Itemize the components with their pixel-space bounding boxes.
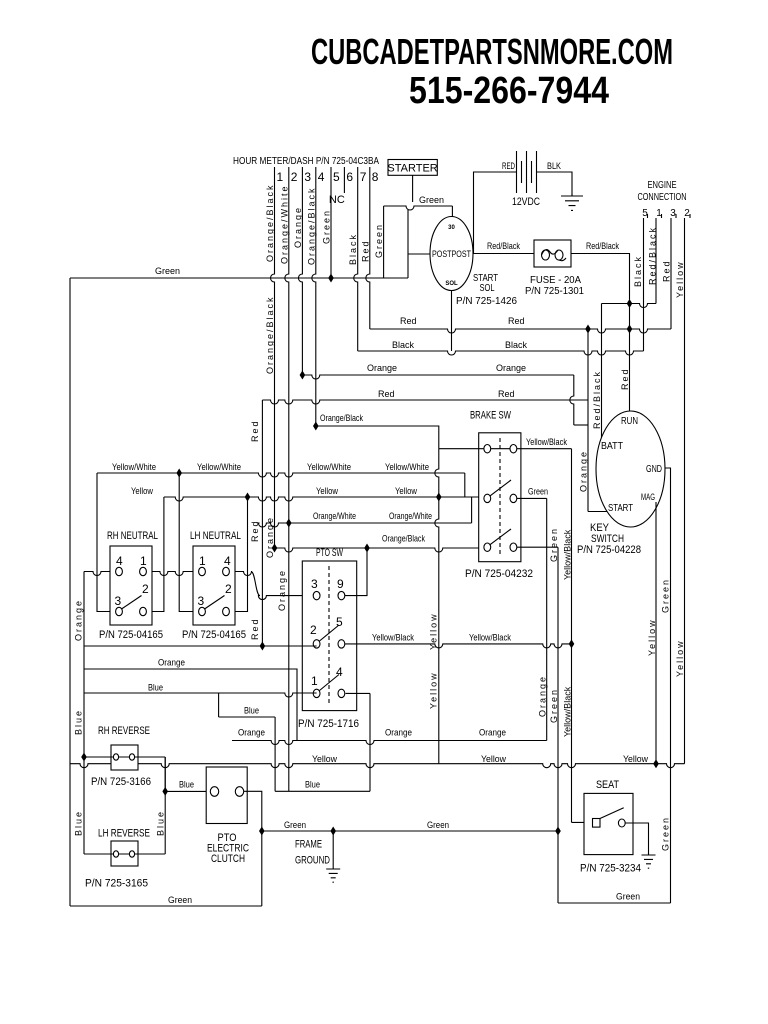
svg-text:P/N 725-04228: P/N 725-04228: [577, 544, 641, 556]
key switch ellipse: [596, 411, 665, 527]
svg-text:Green: Green: [374, 223, 384, 258]
svg-text:Yellow: Yellow: [395, 486, 417, 496]
LH reverse terminal circles: [113, 851, 118, 857]
brake switch dashed center line: [499, 438, 501, 557]
svg-text:5: 5: [333, 170, 340, 184]
fuse box: [534, 240, 571, 267]
svg-text:3: 3: [304, 170, 311, 184]
svg-text:Orange: Orange: [367, 363, 397, 373]
PTO switch box: [302, 561, 356, 711]
svg-text:Orange: Orange: [265, 516, 275, 558]
PTO lever row2: [320, 625, 340, 641]
wire yellow/black vertical brake to seat: [571, 449, 573, 823]
wire yellow/white right corner down to yellow row: [464, 473, 466, 497]
svg-text:Green: Green: [155, 266, 180, 276]
svg-text:Blue: Blue: [156, 810, 166, 836]
wire green brake to seat area vertical: [557, 547, 559, 903]
svg-text:ENGINE: ENGINE: [648, 180, 677, 191]
LH neutral terminal circles: [199, 567, 206, 575]
svg-text:HOUR METER/DASH P/N 725-04C3BA: HOUR METER/DASH P/N 725-04C3BA: [233, 156, 379, 167]
svg-text:P/N 725-1301: P/N 725-1301: [525, 286, 584, 297]
svg-text:Red: Red: [250, 419, 260, 442]
svg-text:Red: Red: [400, 316, 417, 326]
junction clutch to green row: [259, 827, 265, 836]
svg-text:Orange/Black: Orange/Black: [382, 534, 425, 544]
wire hour-meter pin1 Orange/Black: [271, 167, 275, 548]
wire brake row3 right: [517, 546, 558, 548]
svg-text:8: 8: [372, 170, 379, 184]
svg-text:4: 4: [116, 554, 123, 568]
svg-text:Orange/White: Orange/White: [279, 184, 289, 264]
junction red row1 to orange vertical: [585, 325, 591, 334]
LH reverse internal wire: [84, 853, 165, 855]
wire orange jog to start vertical: [574, 424, 588, 426]
svg-text:Red/Black: Red/Black: [648, 226, 658, 285]
PTO clutch box: [206, 767, 247, 824]
neutral switch row horizontal wire: [84, 572, 252, 576]
LH neutral lever: [205, 596, 225, 610]
svg-text:3: 3: [115, 594, 122, 608]
svg-text:Yellow: Yellow: [481, 754, 506, 764]
battery cells 12VDC: [517, 151, 537, 193]
svg-text:Red: Red: [620, 367, 630, 390]
svg-text:2: 2: [310, 623, 317, 637]
svg-text:Black: Black: [348, 233, 358, 265]
green row horizontal: [262, 830, 558, 832]
svg-text:Orange/White: Orange/White: [389, 511, 432, 521]
pin2 feed row horizontal: [84, 645, 317, 647]
wire starter to green node: [412, 175, 414, 202]
svg-text:4: 4: [224, 554, 231, 568]
svg-text:Green: Green: [616, 892, 640, 902]
svg-text:Black: Black: [505, 340, 528, 350]
svg-text:Yellow/Black: Yellow/Black: [563, 529, 573, 580]
svg-text:SEAT: SEAT: [596, 779, 619, 791]
bottom left green border: [70, 905, 262, 907]
svg-text:START: START: [608, 503, 633, 514]
svg-text:Orange: Orange: [496, 363, 526, 373]
svg-text:P/N 725-3165: P/N 725-3165: [85, 878, 148, 890]
battery ground symbol: [561, 194, 583, 210]
svg-text:Green: Green: [168, 895, 192, 905]
svg-text:Yellow/White: Yellow/White: [112, 462, 156, 472]
wire PTO pin4 exit: [346, 692, 370, 694]
wire red vertical to pin2 feed row: [261, 400, 263, 646]
junction frame ground tap: [330, 827, 336, 836]
starter box: [388, 160, 437, 176]
wire yellow/white down to LH neutral pin3: [179, 473, 199, 612]
bottom right green border: [558, 902, 671, 904]
svg-text:Orange: Orange: [538, 675, 548, 717]
wire hour-meter pin2 Orange/White: [285, 167, 289, 791]
wire green node horizontal: [384, 206, 453, 210]
svg-text:Yellow: Yellow: [675, 260, 685, 298]
wire brake feed vertical to yellow bus: [435, 449, 439, 764]
junction green vertical to green row: [555, 827, 561, 836]
svg-text:Yellow/Black: Yellow/Black: [469, 633, 511, 643]
blue row 1 horizontal pin1 feed: [84, 693, 317, 697]
svg-text:P/N 725-04165: P/N 725-04165: [182, 629, 246, 641]
yellow/white row horizontal wire: [97, 473, 465, 477]
junction left chain to RH reverse: [81, 753, 87, 762]
junction pin1 wire to Orange/Black row: [272, 544, 278, 553]
svg-text:LH REVERSE: LH REVERSE: [98, 828, 150, 840]
svg-text:Yellow: Yellow: [675, 639, 685, 677]
svg-text:CONNECTION: CONNECTION: [638, 192, 687, 203]
RH reverse internal wire: [84, 756, 165, 758]
wire blue down to blue row B: [274, 717, 276, 791]
left border green vertical: [69, 278, 71, 906]
yellow long row horizontal: [70, 764, 685, 768]
orange row C horizontal: [232, 741, 547, 745]
svg-text:P/N 725-3234: P/N 725-3234: [580, 863, 641, 875]
fuse element symbol: [542, 250, 550, 260]
svg-text:Red/Black: Red/Black: [592, 370, 602, 429]
svg-text:Orange: Orange: [293, 206, 303, 248]
blue row B horizontal: [275, 790, 370, 792]
LH neutral switch box: [193, 546, 235, 625]
svg-text:Green: Green: [549, 688, 559, 723]
PTO clutch terminal circles: [210, 787, 218, 797]
wire engine pin2 Yellow: [684, 218, 686, 764]
svg-text:Green: Green: [549, 527, 559, 562]
wire battery negative to ground: [537, 172, 572, 196]
svg-text:Blue: Blue: [74, 709, 84, 735]
wire orange row corner down: [570, 375, 574, 425]
svg-text:P/N 725-1426: P/N 725-1426: [456, 296, 517, 307]
svg-text:Orange/Black: Orange/Black: [320, 413, 363, 423]
red row 1 horizontal wire: [370, 329, 671, 333]
svg-text:30: 30: [448, 225, 455, 231]
wire yellow row corner to RH neutral pin2: [146, 497, 164, 612]
svg-text:BRAKE SW: BRAKE SW: [470, 410, 511, 422]
RH reverse terminal circles: [113, 754, 118, 760]
svg-text:Green: Green: [284, 820, 306, 830]
wire solenoid to fuse Red/Black: [473, 253, 534, 255]
svg-text:CUBCADETPARTSNMORE.COM: CUBCADETPARTSNMORE.COM: [311, 31, 673, 72]
svg-text:1: 1: [140, 554, 147, 568]
svg-text:Blue: Blue: [244, 706, 259, 716]
svg-text:Orange/White: Orange/White: [313, 511, 356, 521]
svg-text:Orange/Black: Orange/Black: [265, 295, 275, 374]
wire hour-meter pin8 Red: [366, 167, 370, 329]
svg-text:Yellow/White: Yellow/White: [385, 462, 429, 472]
seat ground symbol: [642, 853, 656, 868]
junction yellow row to brake feed vertical: [436, 493, 442, 502]
svg-text:Black: Black: [633, 255, 643, 287]
svg-text:P/N 725-1716: P/N 725-1716: [298, 718, 359, 730]
wire battery positive to solenoid post: [474, 172, 517, 254]
wire yellow row down to LH neutral pin2: [230, 497, 248, 612]
junction MAG to yellow bus: [653, 759, 659, 768]
frame ground symbol: [326, 831, 340, 882]
wire solenoid SOL down to black row: [451, 291, 453, 352]
svg-text:Blue: Blue: [305, 780, 320, 790]
seat switch box: [584, 793, 633, 854]
start solenoid ellipse: [430, 217, 473, 291]
seat lever: [600, 808, 624, 819]
wire seat right to ground: [625, 823, 648, 855]
svg-text:Orange: Orange: [74, 599, 84, 641]
RH reverse box: [111, 745, 138, 770]
wire orange brake middle down to orange row C: [546, 498, 548, 740]
svg-text:Yellow: Yellow: [131, 486, 153, 496]
orange row B horizontal: [84, 669, 297, 741]
junction orange/black upper row at pin4 wire: [313, 422, 319, 431]
svg-text:Red: Red: [662, 259, 672, 282]
wire clutch right down to green row and bottom border: [244, 791, 262, 906]
svg-text:Black: Black: [392, 340, 415, 350]
svg-text:Orange: Orange: [579, 450, 589, 492]
wire to START terminal: [588, 511, 608, 513]
junction pin2 wire to Orange/White row: [286, 519, 292, 528]
LH reverse box: [111, 841, 138, 866]
orange/white row horizontal wire: [258, 523, 471, 527]
svg-text:Orange: Orange: [238, 728, 265, 738]
blue row 2: [219, 716, 276, 718]
svg-text:RH NEUTRAL: RH NEUTRAL: [107, 530, 158, 542]
blue vertical RH to LH reverse: [164, 757, 166, 854]
wire hour-meter pin6 NC stub: [343, 167, 345, 193]
svg-text:GND: GND: [646, 464, 662, 475]
wire fuse node to pin1 horizontal: [602, 304, 657, 308]
svg-text:Blue: Blue: [148, 683, 163, 693]
svg-text:Yellow: Yellow: [623, 754, 648, 764]
wire yellow/black to seat left terminal: [572, 821, 593, 823]
neutral row jog down to pto row: [251, 572, 260, 596]
svg-text:FUSE - 20A: FUSE - 20A: [530, 275, 581, 286]
orange/black row horizontal wire: [275, 548, 485, 552]
svg-text:P/N 725-04232: P/N 725-04232: [465, 568, 533, 580]
svg-text:Yellow: Yellow: [312, 754, 337, 764]
svg-text:RUN: RUN: [621, 416, 638, 427]
svg-text:1: 1: [311, 674, 318, 688]
svg-text:Red/Black: Red/Black: [487, 241, 520, 251]
junction fuse node: [627, 299, 633, 308]
svg-text:Yellow: Yellow: [316, 486, 338, 496]
seat left terminal square: [593, 819, 601, 828]
RH neutral lever: [122, 596, 142, 610]
svg-text:3: 3: [670, 208, 676, 219]
junction yellow/white to LH neutral: [176, 469, 182, 478]
junction blue vertical to clutch wire: [162, 787, 168, 796]
green bus horizontal wire: [70, 277, 408, 279]
svg-text:2: 2: [142, 582, 149, 596]
svg-text:Blue: Blue: [179, 780, 194, 790]
junction yellow/black vertical at row: [569, 639, 575, 648]
left border vertical Orange/Blue chain: [83, 572, 85, 855]
svg-text:Blue: Blue: [74, 810, 84, 836]
wire blue to clutch left terminal: [165, 790, 211, 792]
svg-text:Yellow/White: Yellow/White: [197, 462, 241, 472]
svg-text:9: 9: [337, 577, 344, 591]
svg-text:NC: NC: [329, 194, 345, 206]
svg-text:RED: RED: [502, 161, 515, 171]
svg-text:Green: Green: [427, 820, 449, 830]
junction yellow row to LH neutral pin2: [245, 493, 251, 502]
wire to solenoid POST: [408, 253, 430, 255]
svg-text:Green: Green: [661, 816, 671, 851]
svg-text:1: 1: [277, 170, 284, 184]
svg-text:Yellow/Black: Yellow/Black: [526, 437, 567, 447]
wire hour-meter pin3 Orange: [298, 167, 302, 375]
wire hour-meter pin7 Black: [354, 167, 358, 351]
svg-text:Yellow: Yellow: [429, 671, 439, 709]
svg-text:Green: Green: [528, 487, 548, 497]
brake switch box: [479, 433, 521, 562]
brake row1 wire through box: [439, 448, 572, 450]
wire starter down to green bus: [407, 210, 409, 278]
svg-text:4: 4: [318, 170, 325, 184]
svg-text:Red: Red: [250, 617, 260, 640]
svg-text:Orange: Orange: [385, 728, 412, 738]
svg-text:Red/Black: Red/Black: [586, 241, 619, 251]
wire orange/black row to brake upper: [316, 426, 439, 449]
junction pin3 wire at Orange row: [300, 371, 306, 380]
svg-text:STARTER: STARTER: [387, 163, 437, 175]
wire hour-meter pin4 Orange/Black: [312, 167, 316, 426]
svg-text:CLUTCH: CLUTCH: [211, 853, 245, 865]
wire Red/Black down to key switch BATT: [601, 304, 603, 439]
svg-text:POSTPOST: POSTPOST: [432, 249, 471, 259]
junction pin5 wire to green bus: [328, 274, 334, 283]
svg-text:6: 6: [346, 170, 353, 184]
wire PTO pin9 up to orange/black row: [345, 548, 367, 596]
wire fuse to engine node Red/Black: [571, 254, 630, 300]
brake lever row3: [490, 529, 511, 545]
svg-text:Red: Red: [360, 239, 370, 262]
svg-text:Orange: Orange: [277, 569, 287, 611]
svg-text:2: 2: [291, 170, 298, 184]
red row 2 horizontal wire: [262, 400, 588, 404]
RH neutral terminal circles: [116, 567, 123, 575]
svg-text:Orange/Black: Orange/Black: [306, 186, 316, 265]
svg-text:2: 2: [225, 582, 232, 596]
svg-text:Yellow/Black: Yellow/Black: [372, 633, 414, 643]
PTO terminal circles: [313, 591, 320, 599]
wire green to solenoid 30 terminal: [451, 206, 453, 217]
svg-text:Orange: Orange: [158, 658, 185, 668]
svg-text:RH REVERSE: RH REVERSE: [98, 725, 150, 737]
wire RH reverse right corner down: [164, 757, 166, 791]
svg-text:LH NEUTRAL: LH NEUTRAL: [190, 530, 241, 542]
yellow/black row from PTO pin5: [345, 644, 572, 648]
svg-text:12VDC: 12VDC: [512, 196, 540, 208]
svg-text:BLK: BLK: [547, 161, 561, 171]
wire brake row2 right Green: [517, 497, 547, 499]
svg-text:P/N 725-3166: P/N 725-3166: [91, 776, 151, 788]
svg-text:Green: Green: [661, 578, 671, 613]
RH neutral switch box: [110, 546, 152, 625]
junction red vertical to pin2 row: [260, 642, 266, 651]
svg-text:GROUND: GROUND: [295, 855, 330, 867]
svg-text:Yellow/Black: Yellow/Black: [563, 686, 573, 737]
yellow row horizontal wire: [164, 497, 484, 501]
svg-text:4: 4: [336, 665, 343, 679]
svg-text:Yellow/White: Yellow/White: [307, 462, 351, 472]
wire orange vertical to key START: [587, 329, 589, 512]
seat right terminal circle: [618, 819, 625, 827]
wire engine pin5 Black: [643, 218, 645, 351]
svg-text:FRAME: FRAME: [295, 839, 322, 851]
wire PTO pin4 down to blue row B: [369, 693, 371, 791]
brake lever row2: [490, 480, 511, 496]
wire key GND to green border: [665, 468, 671, 903]
svg-text:Orange: Orange: [479, 728, 506, 738]
wire hour-meter pin5 Green: [330, 167, 332, 278]
svg-text:SOL: SOL: [445, 281, 458, 287]
svg-text:P/N 725-04165: P/N 725-04165: [99, 629, 163, 641]
svg-text:7: 7: [360, 170, 367, 184]
junction red row at RUN feed: [627, 325, 633, 334]
svg-text:PTO SW: PTO SW: [316, 547, 343, 559]
svg-text:Green: Green: [419, 195, 444, 205]
wire engine pin1 Red/Black: [655, 218, 657, 304]
svg-text:Red: Red: [498, 389, 515, 399]
wire blue step down: [218, 693, 220, 717]
junction orange/black row to PTO pin9: [364, 544, 370, 553]
wire engine pin3 Red: [670, 218, 672, 329]
PTO lever row3: [320, 675, 340, 691]
svg-text:BATT: BATT: [601, 441, 623, 452]
wire red feed to key switch RUN: [629, 304, 631, 412]
wire pto pin3 feed row: [258, 596, 345, 600]
wire green down to green bus: [383, 206, 385, 278]
wire yellow/white corner to RH neutral pin3: [97, 473, 115, 612]
svg-text:3: 3: [311, 577, 318, 591]
svg-text:SOL: SOL: [480, 283, 495, 294]
black row horizontal wire: [358, 351, 644, 355]
svg-text:515-266-7944: 515-266-7944: [409, 70, 609, 112]
svg-text:2: 2: [684, 208, 690, 219]
engine pin ticks: [648, 214, 691, 218]
svg-text:Orange/Black: Orange/Black: [265, 183, 275, 262]
orange row horizontal wire: [302, 375, 573, 379]
svg-text:Green: Green: [322, 209, 332, 244]
brake terminal circles: [484, 445, 491, 453]
wire key MAG down to yellow bus: [655, 502, 657, 764]
svg-text:1: 1: [199, 554, 206, 568]
svg-text:Red: Red: [378, 389, 395, 399]
wire orange/white corner up to yellow row: [471, 497, 473, 523]
svg-text:Yellow: Yellow: [647, 618, 657, 656]
svg-text:3: 3: [198, 594, 205, 608]
svg-text:MAG: MAG: [641, 492, 655, 502]
svg-text:Red: Red: [508, 316, 525, 326]
PTO switch dashed center line: [328, 566, 330, 705]
